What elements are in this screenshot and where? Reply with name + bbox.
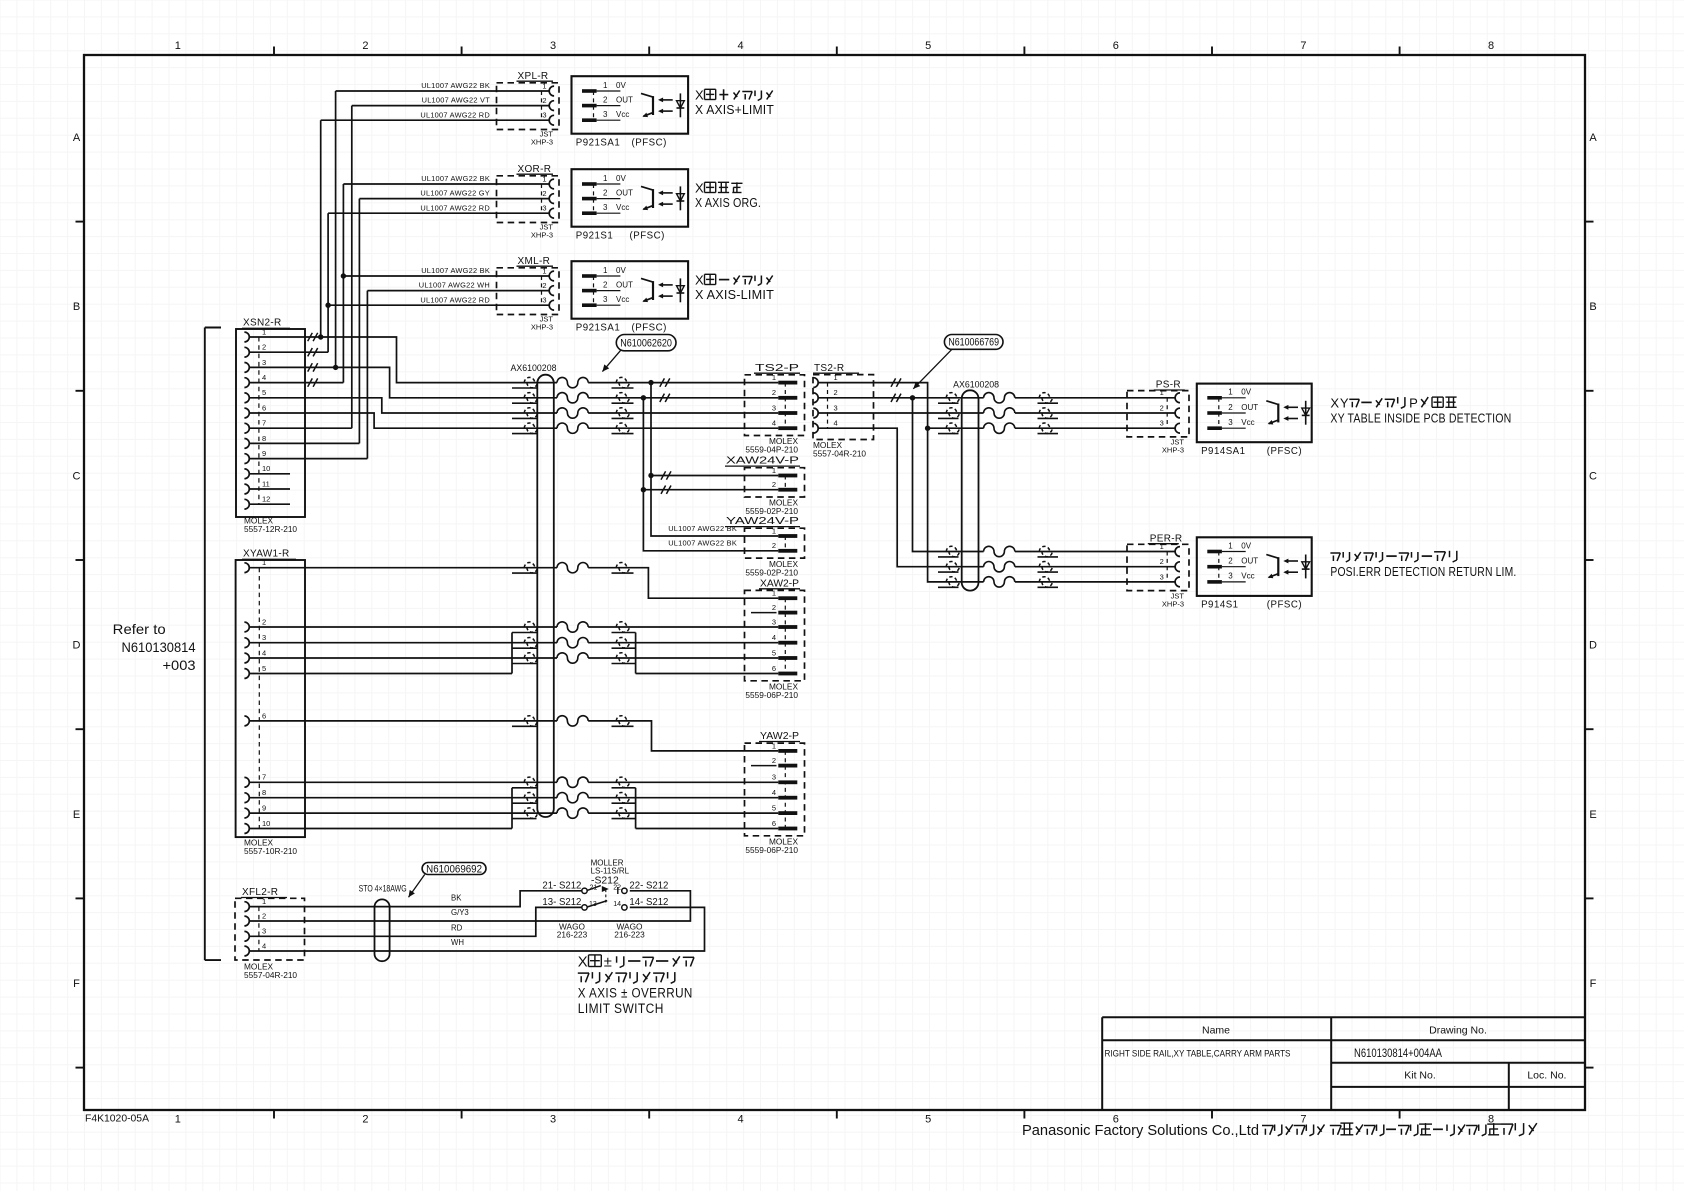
svg-text:F: F <box>1590 978 1597 990</box>
svg-text:UL1007 AWG22 BK: UL1007 AWG22 BK <box>421 266 490 275</box>
svg-text:1: 1 <box>772 741 776 750</box>
svg-text:1: 1 <box>262 897 266 906</box>
svg-text:216-223: 216-223 <box>557 929 588 939</box>
svg-text:(PFSC): (PFSC) <box>1267 446 1302 457</box>
svg-text:7: 7 <box>262 773 266 782</box>
svg-text:-S212: -S212 <box>591 875 619 886</box>
svg-text:9: 9 <box>262 804 266 813</box>
svg-text:2: 2 <box>1228 403 1233 412</box>
svg-text:3: 3 <box>603 110 608 119</box>
svg-text:2: 2 <box>1160 557 1164 566</box>
svg-text:4: 4 <box>262 648 266 657</box>
svg-text:2: 2 <box>603 280 608 289</box>
svg-text:1: 1 <box>772 589 776 598</box>
svg-text:216-223: 216-223 <box>614 929 645 939</box>
svg-text:C: C <box>73 470 81 482</box>
svg-text:C: C <box>1589 470 1597 482</box>
svg-text:13: 13 <box>589 901 597 908</box>
svg-text:+003: +003 <box>163 657 196 673</box>
svg-text:11: 11 <box>262 479 270 488</box>
svg-text:6: 6 <box>772 664 776 673</box>
svg-text:2: 2 <box>772 541 776 550</box>
svg-text:A: A <box>1589 132 1597 144</box>
svg-text:2: 2 <box>772 388 776 397</box>
svg-text:1: 1 <box>603 266 608 275</box>
svg-text:7: 7 <box>1300 40 1306 52</box>
svg-text:F: F <box>73 978 80 990</box>
svg-text:UL1007 AWG22 RD: UL1007 AWG22 RD <box>420 203 490 212</box>
svg-text:10: 10 <box>262 819 270 828</box>
svg-text:3: 3 <box>772 403 776 412</box>
svg-text:0V: 0V <box>1241 541 1251 550</box>
svg-text:G/Y3: G/Y3 <box>451 908 469 917</box>
svg-text:UL1007 AWG22 GY: UL1007 AWG22 GY <box>420 189 490 198</box>
svg-text:Kit No.: Kit No. <box>1404 1070 1436 1082</box>
svg-text:3: 3 <box>603 203 608 212</box>
svg-text:X AXIS-LIMIT: X AXIS-LIMIT <box>695 287 774 302</box>
svg-text:1: 1 <box>772 373 776 382</box>
svg-text:XHP-3: XHP-3 <box>531 138 553 147</box>
svg-text:21- S212: 21- S212 <box>542 881 581 892</box>
svg-text:2: 2 <box>362 40 368 52</box>
svg-text:2: 2 <box>262 343 266 352</box>
svg-text:2: 2 <box>772 480 776 489</box>
svg-text:0V: 0V <box>616 266 626 275</box>
svg-text:UL1007 AWG22 BK: UL1007 AWG22 BK <box>421 174 490 183</box>
svg-text:XAW24V-P: XAW24V-P <box>726 456 799 467</box>
svg-text:1: 1 <box>603 81 608 90</box>
svg-text:3: 3 <box>1160 572 1164 581</box>
svg-text:5559-06P-210: 5559-06P-210 <box>745 845 798 855</box>
svg-text:UL1007 AWG22 BK: UL1007 AWG22 BK <box>668 539 737 548</box>
svg-text:10: 10 <box>262 464 270 473</box>
svg-text:4: 4 <box>772 788 776 797</box>
svg-text:5557-04R-210: 5557-04R-210 <box>244 970 297 980</box>
svg-text:XPL-R: XPL-R <box>518 71 549 82</box>
svg-text:2: 2 <box>262 617 266 626</box>
svg-text:XHP-3: XHP-3 <box>1162 599 1184 608</box>
svg-text:1: 1 <box>772 466 776 475</box>
svg-text:3: 3 <box>1228 572 1233 581</box>
svg-text:P921S1: P921S1 <box>576 230 613 241</box>
svg-text:3: 3 <box>262 633 266 642</box>
svg-text:Vcc: Vcc <box>616 295 629 304</box>
svg-text:3: 3 <box>262 927 266 936</box>
svg-text:1: 1 <box>603 174 608 183</box>
svg-text:2: 2 <box>362 1114 368 1126</box>
svg-text:B: B <box>1589 301 1596 313</box>
svg-text:XHP-3: XHP-3 <box>531 231 553 240</box>
svg-text:1: 1 <box>542 174 546 183</box>
svg-text:B: B <box>73 301 80 313</box>
svg-text:N610130814+004AA: N610130814+004AA <box>1354 1048 1442 1060</box>
svg-text:P914S1: P914S1 <box>1201 600 1238 611</box>
svg-text:5559-06P-210: 5559-06P-210 <box>745 690 798 700</box>
svg-text:LS-11S/RL: LS-11S/RL <box>591 867 630 876</box>
svg-text:XHP-3: XHP-3 <box>1162 446 1184 455</box>
svg-text:Vcc: Vcc <box>1241 572 1254 581</box>
svg-text:13- S212: 13- S212 <box>542 897 581 908</box>
svg-text:D: D <box>73 640 81 652</box>
svg-text:4: 4 <box>262 373 266 382</box>
svg-text:1: 1 <box>175 40 181 52</box>
svg-text:2: 2 <box>772 603 776 612</box>
svg-text:7: 7 <box>262 419 266 428</box>
svg-text:1: 1 <box>542 81 546 90</box>
svg-text:3: 3 <box>772 617 776 626</box>
svg-text:2: 2 <box>834 388 838 397</box>
svg-text:8: 8 <box>1488 40 1494 52</box>
svg-text:5557-12R-210: 5557-12R-210 <box>244 524 297 534</box>
svg-text:UL1007 AWG22 RD: UL1007 AWG22 RD <box>420 110 490 119</box>
svg-text:(PFSC): (PFSC) <box>632 137 667 148</box>
svg-text:(PFSC): (PFSC) <box>630 230 665 241</box>
svg-text:XY TABLE INSIDE PCB DETECTION: XY TABLE INSIDE PCB DETECTION <box>1330 410 1511 425</box>
svg-text:X: X <box>695 88 704 103</box>
svg-text:LIMIT SWITCH: LIMIT SWITCH <box>578 1001 664 1017</box>
svg-text:2: 2 <box>1160 403 1164 412</box>
svg-text:Panasonic Factory Solutions Co: Panasonic Factory Solutions Co.,Ltd <box>1022 1123 1259 1139</box>
svg-text:5: 5 <box>925 1114 931 1126</box>
svg-text:12: 12 <box>262 495 270 504</box>
svg-text:1: 1 <box>175 1114 181 1126</box>
svg-text:OUT: OUT <box>616 188 633 197</box>
svg-text:5: 5 <box>772 648 776 657</box>
svg-text:N610069692: N610069692 <box>426 863 482 875</box>
svg-text:5559-02P-210: 5559-02P-210 <box>745 506 798 516</box>
svg-text:(PFSC): (PFSC) <box>1267 600 1302 611</box>
svg-text:1: 1 <box>834 373 838 382</box>
svg-text:7: 7 <box>1300 1114 1306 1126</box>
svg-text:5: 5 <box>262 388 266 397</box>
svg-text:X: X <box>1330 395 1339 410</box>
svg-text:4: 4 <box>772 419 776 428</box>
svg-text:3: 3 <box>603 295 608 304</box>
svg-text:3: 3 <box>1160 419 1164 428</box>
svg-text:Refer to: Refer to <box>113 621 166 637</box>
svg-text:6: 6 <box>772 819 776 828</box>
svg-text:0V: 0V <box>1241 388 1251 397</box>
svg-text:14- S212: 14- S212 <box>629 897 668 908</box>
svg-text:8: 8 <box>262 434 266 443</box>
svg-text:1: 1 <box>1228 541 1233 550</box>
svg-text:WH: WH <box>451 938 464 947</box>
svg-text:AX6100208: AX6100208 <box>511 363 557 373</box>
svg-text:3: 3 <box>772 773 776 782</box>
svg-text:2: 2 <box>772 756 776 765</box>
svg-text:5: 5 <box>262 664 266 673</box>
svg-text:Vcc: Vcc <box>616 203 629 212</box>
svg-text:3: 3 <box>262 358 266 367</box>
svg-text:TS2-P: TS2-P <box>755 363 800 374</box>
svg-text:Vcc: Vcc <box>1241 418 1254 427</box>
svg-text:Y: Y <box>1340 395 1349 410</box>
svg-text:1: 1 <box>1228 388 1233 397</box>
svg-text:2: 2 <box>542 96 546 105</box>
svg-text:F4K1020-05A: F4K1020-05A <box>85 1114 149 1125</box>
svg-text:0V: 0V <box>616 81 626 90</box>
svg-text:P921SA1: P921SA1 <box>576 322 620 333</box>
svg-text:3: 3 <box>834 403 838 412</box>
svg-text:X AXIS ORG.: X AXIS ORG. <box>695 195 761 210</box>
svg-text:BK: BK <box>451 894 462 903</box>
svg-text:2: 2 <box>262 911 266 920</box>
svg-text:UL1007 AWG22 RD: UL1007 AWG22 RD <box>420 295 490 304</box>
svg-text:5557-04R-210: 5557-04R-210 <box>813 448 866 458</box>
svg-text:1: 1 <box>262 327 266 336</box>
svg-text:2: 2 <box>1228 557 1233 566</box>
svg-text:3: 3 <box>550 1114 556 1126</box>
svg-text:X: X <box>695 273 704 288</box>
svg-text:Drawing No.: Drawing No. <box>1429 1025 1487 1037</box>
svg-text:POSI.ERR DETECTION RETURN LIM.: POSI.ERR DETECTION RETURN LIM. <box>1330 564 1516 579</box>
svg-text:AX6100208: AX6100208 <box>953 379 999 389</box>
svg-text:PER-R: PER-R <box>1150 533 1183 544</box>
svg-text:2: 2 <box>542 189 546 198</box>
svg-text:P914SA1: P914SA1 <box>1201 446 1245 457</box>
svg-text:XAW2-P: XAW2-P <box>760 578 799 589</box>
svg-text:XHP-3: XHP-3 <box>531 323 553 332</box>
svg-text:Loc. No.: Loc. No. <box>1527 1070 1566 1082</box>
svg-text:5559-04P-210: 5559-04P-210 <box>745 445 798 455</box>
svg-text:8: 8 <box>262 788 266 797</box>
svg-text:A: A <box>73 132 81 144</box>
svg-text:5: 5 <box>925 40 931 52</box>
svg-text:4: 4 <box>262 941 266 950</box>
svg-text:E: E <box>1589 809 1596 821</box>
svg-text:3: 3 <box>542 204 546 213</box>
svg-text:Vcc: Vcc <box>616 110 629 119</box>
svg-text:D: D <box>1589 640 1597 652</box>
svg-text:(PFSC): (PFSC) <box>632 322 667 333</box>
svg-text:3: 3 <box>542 111 546 120</box>
svg-text:2: 2 <box>603 95 608 104</box>
svg-text:PS-R: PS-R <box>1156 380 1181 391</box>
svg-text:2: 2 <box>542 281 546 290</box>
svg-text:P: P <box>1409 395 1418 410</box>
svg-text:UL1007 AWG22 BK: UL1007 AWG22 BK <box>421 81 490 90</box>
svg-text:6: 6 <box>262 711 266 720</box>
svg-text:6: 6 <box>1113 40 1119 52</box>
svg-text:RD: RD <box>451 923 463 932</box>
svg-text:5: 5 <box>772 804 776 813</box>
svg-text:XYAW1-R: XYAW1-R <box>243 549 290 560</box>
svg-text:XFL2-R: XFL2-R <box>242 887 278 898</box>
svg-text:X: X <box>695 181 704 196</box>
svg-text:UL1007 AWG22 VT: UL1007 AWG22 VT <box>422 96 491 105</box>
svg-text:N610066769: N610066769 <box>948 337 999 349</box>
svg-text:XML-R: XML-R <box>518 256 551 267</box>
svg-text:E: E <box>73 809 80 821</box>
svg-text:14: 14 <box>613 901 621 908</box>
svg-text:RIGHT SIDE RAIL,XY TABLE,CARRY: RIGHT SIDE RAIL,XY TABLE,CARRY ARM PARTS <box>1105 1049 1291 1059</box>
svg-text:4: 4 <box>738 40 744 52</box>
svg-text:XOR-R: XOR-R <box>518 164 552 175</box>
svg-text:YAW24V-P: YAW24V-P <box>726 516 799 527</box>
svg-text:TS2-R: TS2-R <box>814 363 844 374</box>
svg-text:N610062620: N610062620 <box>620 337 672 349</box>
svg-text:1: 1 <box>542 266 546 275</box>
svg-text:22- S212: 22- S212 <box>629 881 668 892</box>
svg-text:9: 9 <box>262 449 266 458</box>
svg-text:OUT: OUT <box>1241 403 1258 412</box>
svg-text:0V: 0V <box>616 174 626 183</box>
svg-text:±: ± <box>604 955 612 971</box>
svg-text:4: 4 <box>834 419 838 428</box>
svg-text:3: 3 <box>1228 418 1233 427</box>
svg-text:OUT: OUT <box>1241 557 1258 566</box>
svg-text:STO 4×18AWG: STO 4×18AWG <box>359 883 407 893</box>
svg-text:N610130814: N610130814 <box>122 639 196 655</box>
svg-text:4: 4 <box>772 633 776 642</box>
svg-text:UL1007 AWG22 WH: UL1007 AWG22 WH <box>419 281 490 290</box>
svg-text:1: 1 <box>262 558 266 567</box>
svg-text:Name: Name <box>1202 1025 1230 1037</box>
svg-text:3: 3 <box>542 296 546 305</box>
svg-text:1: 1 <box>772 526 776 535</box>
svg-text:5559-02P-210: 5559-02P-210 <box>745 567 798 577</box>
svg-text:X: X <box>578 955 588 971</box>
svg-text:P921SA1: P921SA1 <box>576 137 620 148</box>
svg-text:YAW2-P: YAW2-P <box>760 731 799 742</box>
svg-text:X AXIS+LIMIT: X AXIS+LIMIT <box>695 102 774 117</box>
svg-text:6: 6 <box>262 403 266 412</box>
svg-text:2: 2 <box>603 188 608 197</box>
svg-text:5557-10R-210: 5557-10R-210 <box>244 846 297 856</box>
svg-text:OUT: OUT <box>616 95 633 104</box>
svg-text:3: 3 <box>550 40 556 52</box>
svg-text:OUT: OUT <box>616 280 633 289</box>
svg-text:X AXIS ± OVERRUN: X AXIS ± OVERRUN <box>578 986 693 1002</box>
svg-text:4: 4 <box>738 1114 744 1126</box>
